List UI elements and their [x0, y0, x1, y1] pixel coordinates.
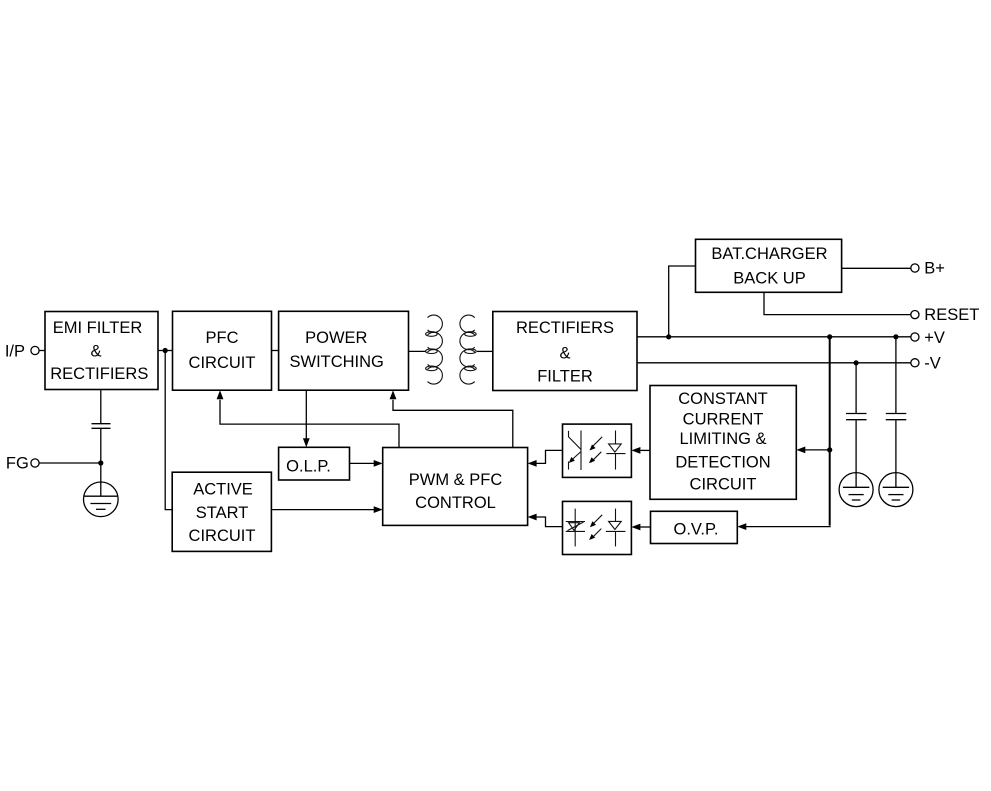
svg-text:-V: -V: [924, 355, 941, 373]
terminal FG: [6, 454, 39, 472]
arrowhead into PFC bottom: [217, 390, 224, 399]
terminal -V: [911, 355, 941, 373]
svg-text:O.L.P.: O.L.P.: [286, 458, 331, 476]
wire -V to capacitor C1: [855, 363, 857, 413]
wire POWER SWITCHING down to O.L.P.: [305, 390, 307, 439]
junction node after EMI: [163, 348, 168, 353]
arrowhead into optocoupler U1 right: [631, 447, 640, 454]
wire PFC to POWER SWITCHING: [272, 350, 279, 352]
block PWM & PFC CONTROL: [383, 448, 528, 526]
wire transformer secondary to RECTIFIERS & FILTER: [477, 350, 493, 352]
transformer T1 secondary winding: [460, 315, 476, 384]
capacitor C2: [886, 414, 907, 420]
arrowhead into PWM left lower: [374, 506, 383, 513]
wire -V rail: [637, 362, 911, 364]
arrowhead into POWER SWITCHING bottom: [390, 390, 397, 399]
wire ACTIVE START to PWM control: [271, 509, 374, 511]
junction node +V to capacitor C2: [893, 334, 898, 339]
svg-text:I/P: I/P: [5, 342, 25, 360]
block O.V.P.: [651, 511, 738, 543]
terminal +V: [911, 329, 945, 347]
junction node +V sense trunk: [827, 334, 832, 339]
wire EMI to PFC: [158, 350, 173, 352]
capacitor CY: [92, 424, 111, 429]
svg-text:CIRCUIT: CIRCUIT: [690, 476, 757, 494]
wire capacitor CY to ground: [100, 429, 102, 482]
wire +V rail up to BAT.CHARGER: [669, 266, 696, 337]
optocoupler U1 light arrow 2: [589, 452, 601, 463]
wire O.L.P. to PWM control: [350, 462, 375, 464]
optocoupler U1 box: [563, 424, 632, 477]
svg-text:B+: B+: [924, 260, 945, 278]
svg-text:&: &: [559, 344, 570, 362]
arrowhead into CONSTANT CURRENT right: [796, 447, 805, 454]
block ACTIVE START CIRCUIT: [172, 472, 271, 551]
wire +V rail: [637, 336, 911, 338]
optocoupler U2 photo detector: [566, 509, 585, 547]
block O.L.P.: [279, 447, 350, 480]
arrowhead into O.L.P. top: [303, 438, 310, 447]
transformer T1 primary winding: [426, 315, 443, 384]
svg-text:LIMITING &: LIMITING &: [679, 430, 766, 448]
optocoupler U1 LED D1: [606, 431, 625, 470]
optocoupler U1 emitter arrowhead: [569, 457, 575, 463]
svg-text:BACK UP: BACK UP: [733, 270, 805, 288]
svg-text:O.V.P.: O.V.P.: [674, 521, 719, 539]
wire O.V.P. to optocoupler U2: [640, 526, 650, 528]
block RECTIFIERS & FILTER: [493, 312, 637, 391]
svg-text:&: &: [90, 342, 101, 360]
wire BAT.CHARGER to RESET terminal: [764, 292, 911, 314]
optocoupler U1 light arrow 1: [590, 437, 603, 451]
svg-text:CIRCUIT: CIRCUIT: [189, 527, 256, 545]
svg-text:RESET: RESET: [924, 306, 979, 324]
arrowhead into O.V.P. right: [737, 523, 746, 530]
svg-text:CIRCUIT: CIRCUIT: [189, 354, 256, 372]
optocoupler U2 box: [563, 501, 632, 554]
wire capacitor C1 to ground: [855, 420, 857, 473]
wire junction down to ACTIVE START input: [165, 351, 172, 510]
optocoupler U2 light arrow 1: [590, 515, 602, 528]
svg-text:RECTIFIERS: RECTIFIERS: [516, 319, 614, 337]
block POWER SWITCHING: [279, 311, 409, 390]
block EMI FILTER & RECTIFIERS: [45, 312, 158, 390]
arrowhead into PWM right lower: [528, 514, 537, 521]
wire optocoupler U1 to PWM control: [536, 450, 563, 463]
junction node -V to capacitor C1: [854, 360, 859, 365]
junction node FG: [98, 460, 103, 465]
ground symbol below C1: [839, 473, 873, 507]
optocoupler U2 LED D2: [606, 509, 626, 547]
wire PWM control feedback to POWER SWITCHING: [393, 400, 513, 448]
wire PWM control feedback to PFC: [220, 400, 399, 448]
wire CONSTANT CURRENT to optocoupler U1: [640, 449, 650, 451]
optocoupler U2 light arrow 2: [589, 529, 601, 540]
wire trunk to CONSTANT CURRENT block: [805, 449, 830, 451]
arrowhead into optocoupler U2 right: [631, 524, 640, 531]
junction node +V to battery charger: [666, 334, 671, 339]
block CONSTANT CURRENT LIMITING & DETECTION CIRCUIT: [650, 386, 796, 500]
capacitor C1: [846, 414, 867, 420]
svg-text:EMI FILTER: EMI FILTER: [53, 319, 143, 337]
terminal I/P: [5, 342, 39, 360]
svg-text:POWER: POWER: [305, 329, 367, 347]
arrowhead into PWM right upper: [528, 460, 537, 467]
svg-text:FG: FG: [6, 454, 29, 472]
optocoupler U1 phototransistor: [569, 431, 582, 471]
svg-text:CURRENT: CURRENT: [683, 410, 764, 428]
arrowhead into PWM left upper: [374, 460, 383, 467]
block BAT.CHARGER BACK UP: [696, 239, 842, 292]
wire I/P to EMI block: [39, 350, 45, 352]
svg-text:SWITCHING: SWITCHING: [289, 353, 383, 371]
wire BAT.CHARGER to B+ terminal: [842, 267, 911, 269]
block PFC CIRCUIT: [173, 311, 272, 390]
wire optocoupler U2 to PWM control: [536, 517, 563, 527]
wire POWER SWITCHING to transformer primary: [409, 350, 427, 352]
wire FG to junction: [39, 462, 101, 464]
svg-text:CONSTANT: CONSTANT: [678, 390, 768, 408]
svg-text:START: START: [196, 504, 249, 522]
svg-text:PWM & PFC: PWM & PFC: [409, 471, 503, 489]
wire +V to capacitor C2: [895, 337, 897, 413]
ground symbol below C2: [879, 473, 913, 507]
svg-text:ACTIVE: ACTIVE: [193, 480, 253, 498]
svg-text:PFC: PFC: [206, 329, 239, 347]
svg-text:+V: +V: [924, 329, 945, 347]
terminal RESET: [911, 306, 980, 324]
wire capacitor C2 to ground: [895, 420, 897, 473]
ground symbol below FG: [84, 482, 119, 517]
wire EMI block down to capacitor CY: [100, 390, 102, 424]
svg-text:DETECTION: DETECTION: [675, 453, 770, 471]
terminal B+: [911, 260, 945, 278]
junction node trunk to constant current: [827, 447, 832, 452]
svg-text:RECTIFIERS: RECTIFIERS: [50, 365, 148, 383]
svg-text:FILTER: FILTER: [537, 367, 593, 385]
svg-text:CONTROL: CONTROL: [415, 494, 496, 512]
svg-text:BAT.CHARGER: BAT.CHARGER: [711, 245, 827, 263]
wire sense trunk from +V down to O.V.P.: [829, 337, 831, 526]
